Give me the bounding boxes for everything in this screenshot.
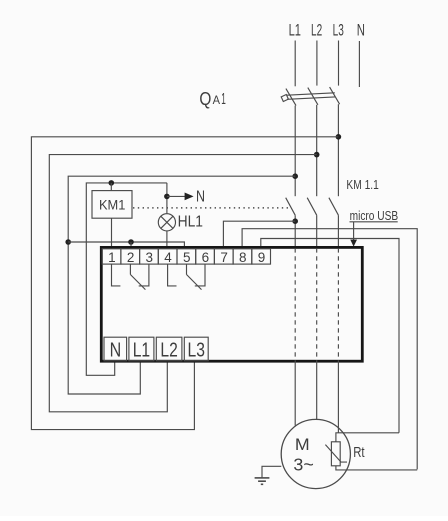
wire motor feed L2 [316,361,318,420]
wire Rt top link [336,433,399,442]
svg-text:Rt: Rt [353,445,364,461]
wire terminal 7 link [223,221,295,248]
svg-text:9: 9 [258,250,266,265]
svg-text:L1: L1 [289,21,301,40]
breaker QA1 label [199,89,225,109]
wire motor feed L1 [294,361,296,426]
wire terminal 2 riser [130,242,132,249]
wire L2 supply drop [316,41,318,86]
svg-text:L3: L3 [188,340,205,362]
terminal block 1-9 [102,249,270,264]
contactor KM1.1 pole 3 blade [329,198,339,216]
node N label [357,21,365,40]
wire L3 below breaker [337,104,339,196]
wire second loop top (L2) [49,155,316,412]
svg-text:L3: L3 [333,21,344,40]
svg-text:HL1: HL1 [178,213,203,230]
wire L3 supply drop [338,41,340,86]
node junction pole 1 / terminal 7 [292,218,298,224]
svg-text:KM 1.1: KM 1.1 [346,177,378,192]
micro USB leader line [350,221,398,223]
lamp HL1 [158,214,175,231]
thermistor Rt diagonal [325,445,347,463]
controller device box [101,247,362,361]
wire motor feed L3 [337,361,339,433]
motor M label [295,435,310,454]
wire terminal 9 link to right riser [261,239,399,433]
wire KM1 mechanical link (dotted) [133,207,288,209]
node L3 label [333,21,344,40]
svg-text:M: M [295,435,310,454]
node micro USB arrowhead [350,240,357,247]
svg-text:N: N [110,340,122,362]
wire pole 3 inside box (dashed) [337,248,339,360]
svg-text:4: 4 [164,250,172,265]
motor M 3~ [281,419,350,488]
svg-text:L2: L2 [160,340,177,362]
terminal L1 label [133,340,150,362]
lamp HL1 label [178,213,203,230]
wire L1 below breaker [294,106,296,197]
wire coil return rail [68,242,184,249]
svg-text:L1: L1 [133,340,150,362]
wire L1 supply drop [294,41,296,87]
node junction third loop / coil return [65,239,71,245]
breaker QA1 pole 3 blade [330,87,340,104]
wire micro USB pointer [353,222,355,240]
svg-text:3~: 3~ [293,455,313,475]
node L1 label [289,21,301,40]
node L2 label [311,21,322,40]
wire terminal 8 link to right riser [242,229,417,470]
wire pole 2 below contact [316,215,318,248]
motor 3~ label [293,455,313,475]
contactor KM1.1 pole 1 blade [286,198,296,216]
svg-text:1: 1 [108,250,116,265]
svg-text:Q: Q [199,89,211,109]
svg-text:KM1: KM1 [99,196,126,212]
contactor KM1.1 pole 2 blade [307,198,317,216]
contactor KM1.1 label [346,177,378,192]
wire N branch vertical [166,183,168,214]
breaker QA1 pole 1 blade [286,89,296,106]
node junction L3 / outer loop [336,134,342,140]
svg-text:A: A [213,95,221,107]
svg-text:1: 1 [221,91,226,108]
wire KM1 coil top lead [110,183,112,191]
svg-text:N: N [196,188,205,205]
wire pole 1 below contact [294,215,296,248]
thermistor Rt label [353,445,364,461]
breaker QA1 handle square [281,95,288,102]
terminal L2 label [160,340,177,362]
node N arrow label [196,188,205,205]
wire lamp HL1 bottom lead to terminal 4 [166,231,168,249]
svg-text:7: 7 [220,250,228,265]
micro USB label [350,209,399,223]
wire N arrow shaft [167,195,185,197]
svg-text:micro USB: micro USB [350,209,399,223]
contactor coil KM1 [92,191,132,219]
svg-text:8: 8 [239,250,247,265]
node junction N arrow [164,194,170,200]
wire pole 1 inside box (dashed) [294,248,296,360]
svg-text:2: 2 [127,250,135,265]
terminal pin numbers 1-9 [108,250,265,265]
wire Rt bottom link [336,466,417,470]
svg-text:3: 3 [146,250,154,265]
terminal N label [110,340,122,362]
terminal block N L1 L2 L3 [104,337,208,361]
svg-text:N: N [357,21,365,40]
wire N loop top [86,183,167,375]
svg-text:5: 5 [183,250,191,265]
wire third loop top (L1) [68,176,295,394]
node junction L2 / second loop [314,152,320,158]
breaker QA1 pole 2 blade [308,88,318,105]
breaker QA1 linkage bar [287,93,335,95]
contactor coil KM1 label [99,196,126,212]
wire outer loop top (L3) [31,137,338,430]
wire KM1 coil bottom lead to terminal 1 [111,218,113,248]
thermistor Rt body [331,442,340,466]
wire N supply stub [358,41,360,87]
internal changeover contact 4-5-6 [168,264,177,286]
wire pole 3 below contact [337,215,339,248]
wire motor earth lead [262,466,281,478]
terminal L3 label [188,340,205,362]
node junction terminal 2 tap [128,239,134,245]
wire L2 below breaker [316,105,318,196]
ground [255,477,270,479]
internal changeover contact 1-2-3 [112,264,121,286]
node junction L1 / third loop [292,173,298,179]
node junction KM1 top feed [109,180,115,186]
node N arrowhead [185,193,194,201]
svg-text:6: 6 [202,250,210,265]
svg-text:L2: L2 [311,21,322,40]
wire pole 2 inside box (dashed) [316,248,318,360]
